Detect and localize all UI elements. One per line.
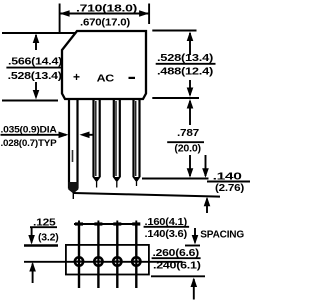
node tick lead 3 pitch [116,221,118,228]
wire bottom-view lead line 2 [97,224,99,288]
svg-text:.710(18.0): .710(18.0) [76,4,137,15]
label minus marking [129,77,136,79]
wire bottom-view lead line 3 [116,224,118,288]
node arrow left of top dimension [60,10,70,17]
wire horizontal centerline through lead circles [24,261,182,263]
node tick lead 2 pitch [97,221,99,228]
bottom view: lead pitch dimension line [74,223,138,225]
svg-text:.140: .140 [213,172,243,183]
node down arrow of stand-off dim .140 [205,155,207,176]
node arrow pointing left at lead 1 right edge [80,132,90,139]
wire rect-top right extension segment [185,245,200,247]
wire interior shading lead 3 [115,101,117,176]
wire left bottom extension line [2,100,58,102]
wire fraction bar .125 dim [30,226,57,228]
wire top dimension line .710/.670 [60,13,150,15]
lead 3 outline [114,99,120,177]
wire rect-bottom right extension line [151,275,205,277]
svg-text:.787: .787 [177,128,200,139]
wire interior shading lead 4 [135,101,137,176]
node down arrow .125 dim [31,227,33,242]
svg-text:.125: .125 [33,218,56,229]
svg-text:.035(0.9)DIA: .035(0.9)DIA [1,125,58,135]
wire interior shading lead 2 [95,101,97,176]
lead 2 outline [94,99,100,177]
node lead circle 2 [94,257,102,265]
wire fraction bar left height dim [6,67,63,69]
wire seating plane line [74,193,220,197]
node up arrow to rect bottom (.240 dim) [193,279,195,300]
wire bottom-view lead line 4 [135,224,137,288]
bottom view body rectangle [66,245,149,275]
svg-text:.670(17.0): .670(17.0) [80,18,130,29]
wire leader line of lead diameter labels [1,134,67,136]
node tick lead 4 pitch [135,221,137,228]
node up arrow of lead length dim .787 [189,101,191,125]
wire crosshair inside circle 4 [132,261,141,263]
body outline of bridge rectifier (front view) [62,31,146,99]
node up arrow .125 dim [32,264,34,284]
wire rect-top left extension line [24,244,58,247]
wire top-left extension tick [59,4,61,34]
svg-text:SPACING: SPACING [200,230,244,241]
svg-text:.528(13.4): .528(13.4) [157,53,213,64]
svg-text:.160(4.1): .160(4.1) [145,217,188,228]
svg-text:(3.2): (3.2) [38,233,59,244]
node up arrow of left height dim [35,35,37,50]
svg-text:(2.76): (2.76) [215,183,244,194]
wire right bottom extension line [152,97,199,99]
wire right top extension line [152,30,196,32]
svg-text:.140(3.6): .140(3.6) [145,229,188,240]
node down arrow of right height dim [189,80,191,95]
node arrow right of top dimension [139,10,149,17]
node lead circle 3 [113,257,121,265]
wire top-right extension tick [148,4,150,25]
wire interior shading lead 1 [72,150,74,162]
wire crosshair inside circle 1 [74,261,83,263]
svg-text:.028(0.7)TYP: .028(0.7)TYP [1,138,57,148]
wire left top extension line [2,32,76,34]
lead 1 (+) outline [69,99,78,189]
node tick lead 1 pitch [78,221,80,228]
wire fraction bar .260/.240 dim [152,257,201,259]
wire crosshair inside circle 3 [113,261,122,263]
node up arrow below seating plane [206,199,208,214]
node down arrow of left height dim [35,82,37,97]
svg-text:.240(6.1): .240(6.1) [153,261,201,272]
node arrow pointing right at lead 1 left edge [59,132,69,139]
wire crosshair inside circle 2 [94,261,103,263]
node lead circle 4 [132,257,140,265]
wire fraction bar right height dim [156,63,216,65]
wire ledge line (lead stand-off upper line) [142,178,209,180]
svg-text:.260(6.6): .260(6.6) [153,248,200,259]
svg-text:+: + [73,70,80,84]
node down arrow of lead length dim .787 [189,155,191,176]
node down arrow to rect top (.260 dim) [194,228,196,243]
svg-text:.488(12.4): .488(12.4) [157,67,213,78]
wire bottom-view lead line 1 [78,224,80,288]
wire fraction bar stand-off dim [207,181,250,183]
node lead circle 1 [75,257,83,265]
lead 4 outline [134,99,140,177]
wire fraction bar lead length dim [167,141,204,143]
svg-text:.528(13.4): .528(13.4) [8,71,62,82]
svg-text:(20.0): (20.0) [174,144,201,155]
svg-text:AC: AC [97,74,114,85]
wire fraction bar .160/.140 spacing dim [144,226,190,228]
svg-text:.566(14.4): .566(14.4) [8,57,62,68]
node up arrow of right height dim [189,33,191,55]
